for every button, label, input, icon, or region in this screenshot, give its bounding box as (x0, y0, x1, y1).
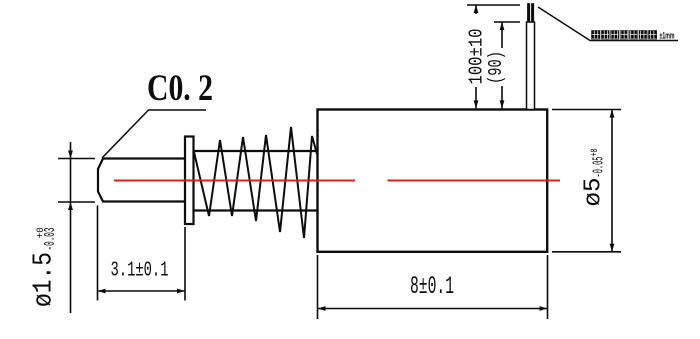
dimension ø1.5 +0/-0.03 (shaft diameter) (58, 142, 95, 313)
plunger shaft outline (98, 159, 185, 202)
chamfer label C0.2 leader (102, 110, 206, 158)
svg-text:-0.03: -0.03 (43, 228, 59, 251)
svg-text:-0.05: -0.05 (592, 157, 608, 178)
svg-text:(90): (90) (485, 51, 507, 84)
leader line to wire note (538, 7, 678, 41)
wire note text (CJK blobs) (592, 31, 657, 40)
svg-text:ø1.5: ø1.5 (30, 252, 60, 307)
tinned lead ends (529, 3, 533, 22)
spring (zigzag coil) (194, 127, 317, 238)
dimension 8±0.1 (body length) (318, 255, 548, 319)
solenoid body (coil case) (318, 110, 548, 252)
spring seat lines (guide sleeve) (194, 151, 317, 211)
plunger flange (spring seat) (185, 137, 194, 225)
centerline (red axis) (114, 180, 560, 182)
svg-text:±1mm: ±1mm (660, 31, 675, 41)
dimension (90) (stripped length) (494, 22, 520, 108)
svg-text:3.1±0.1: 3.1±0.1 (111, 260, 169, 283)
svg-text:ø5: ø5 (581, 178, 608, 207)
svg-text:8±0.1: 8±0.1 (410, 272, 454, 301)
svg-text:+0: +0 (589, 149, 601, 157)
lead wire insulation (527, 22, 535, 110)
svg-text:C0. 2: C0. 2 (147, 68, 213, 109)
dimension ø5 +0/-0.05 (body diameter) (552, 110, 621, 252)
dimension 3.1±0.1 (stroke length) (98, 206, 186, 301)
dimension 100±10 (wire length) (467, 5, 520, 108)
